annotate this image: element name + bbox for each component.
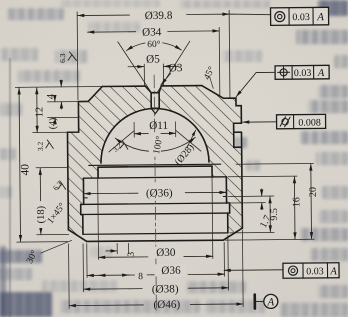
svg-text:A: A: [317, 68, 325, 79]
dim Ø36 bottom: [87, 274, 224, 275]
svg-text:3.2: 3.2: [36, 141, 45, 151]
100 degree text: [149, 133, 166, 155]
outline bottom right bevel: [223, 228, 242, 240]
svg-text:Ø5: Ø5: [146, 53, 160, 65]
dim Ø3 leader: [161, 73, 171, 84]
outline top face: [102, 85, 201, 88]
100 degree arc: [115, 137, 195, 152]
svg-text:6.3: 6.3: [51, 179, 64, 192]
internal bottom edge line: [83, 233, 228, 234]
outline bottom face: [87, 240, 223, 241]
svg-text:Ø3: Ø3: [169, 62, 183, 74]
svg-text:12: 12: [34, 107, 45, 118]
svg-text:60°: 60°: [147, 39, 161, 50]
svg-text:6.3: 6.3: [58, 53, 67, 63]
svg-text:16: 16: [291, 197, 302, 207]
60 degree arc with arrows: [126, 42, 181, 51]
60 degree text: [145, 38, 162, 50]
svg-text:8: 8: [138, 272, 143, 282]
dim 40: [19, 88, 20, 242]
svg-text:0.03: 0.03: [294, 68, 312, 79]
dim 9.5: [269, 196, 271, 232]
svg-text:(4): (4): [48, 118, 59, 130]
dim (SØ28) label on dome: [187, 130, 196, 148]
ghost bleed-through text rows (page verso show-through): [0, 0, 348, 1]
svg-text:A: A: [266, 296, 274, 308]
svg-text:(Ø36): (Ø36): [146, 187, 173, 199]
datum A symbol: [255, 294, 278, 308]
outline right side with groove pocket: [223, 98, 242, 228]
dim (4): [48, 116, 79, 118]
right side extension lines: [224, 163, 314, 240]
svg-text:30°: 30°: [24, 248, 40, 265]
page gutter line: [9, 58, 11, 317]
45 degree leader: [210, 77, 214, 89]
dim (18): [39, 168, 42, 234]
svg-text:20: 20: [308, 187, 319, 197]
svg-text:45°: 45°: [201, 65, 217, 82]
FCF1 concentricity 0.03 A (top right): [270, 7, 328, 25]
dome base edge: [98, 166, 212, 167]
dim Ø34 extension line right: [218, 27, 221, 96]
dim Ø30: [98, 256, 212, 257]
roughness 6.3 top left: [58, 52, 77, 63]
dim 20: [310, 164, 313, 239]
outline bottom left bevel 30: [68, 230, 86, 242]
outline left chamfer 45: [88, 87, 102, 102]
roughness 6.3 lower left: [51, 179, 66, 192]
svg-text:Ø34: Ø34: [142, 26, 162, 38]
dim Ø39.8 line: [78, 14, 271, 17]
svg-text:(Ø38): (Ø38): [152, 283, 179, 295]
outline left shoulder: [67, 101, 89, 229]
FCF2 position 0.03 A (right, with leader): [236, 65, 329, 96]
svg-text:(Ø46): (Ø46): [153, 299, 180, 311]
dim Ø34 line: [88, 31, 220, 32]
dim Ø39.8 extension lines: [77, 10, 230, 99]
dim (Ø36) internal mid: [84, 192, 226, 193]
internal step row 2: [83, 177, 226, 178]
FCF3 cylindricity 0.008 (right, with leader): [243, 114, 326, 129]
svg-text:A: A: [329, 266, 337, 277]
dim 1.7: [261, 189, 263, 196]
svg-text:1×45°: 1×45°: [45, 201, 68, 226]
svg-text:3: 3: [127, 252, 137, 257]
svg-text:0.03: 0.03: [292, 12, 310, 23]
svg-text:0.03: 0.03: [306, 266, 324, 277]
internal step row 1: [89, 164, 221, 165]
dim (Ø46): [69, 304, 243, 306]
dim 16: [293, 177, 296, 239]
dome cavity void (spherical chamber): [80, 108, 230, 242]
internal bore right wall steps: [212, 166, 230, 233]
part centerline: [154, 75, 156, 310]
svg-text:Ø36: Ø36: [161, 265, 181, 277]
FCF4 concentricity 0.03 A (bottom right, leader to axis): [224, 263, 339, 279]
section hatching of part body: [67, 85, 242, 241]
dim (Ø38): [83, 288, 228, 289]
drill point cone at hole bottom: [151, 108, 159, 113]
dim 12: [36, 88, 38, 133]
svg-text:A: A: [316, 11, 324, 23]
svg-text:Ø30: Ø30: [156, 247, 176, 259]
dim 4 (vertical, left): [47, 87, 102, 102]
internal bore left wall steps: [80, 167, 98, 234]
outline right chamfer 45: [202, 85, 224, 98]
100 degree cone lines: [109, 130, 201, 152]
dim Ø5 extension and arrow lines: [144, 64, 163, 85]
internal step row 3: [81, 203, 230, 204]
svg-text:Ø39.8: Ø39.8: [145, 10, 173, 22]
dim 3 bottom: [106, 250, 117, 252]
internal step row 4: [81, 213, 230, 214]
60 degree cone extension lines: [118, 41, 190, 92]
svg-text:0.008: 0.008: [298, 117, 321, 128]
bottom extension lines: [68, 167, 243, 309]
30 degree leader: [41, 240, 72, 253]
funnel countersink and small hole: [145, 86, 161, 108]
internal step row 1.7 relief: [84, 197, 227, 198]
svg-text:40: 40: [19, 164, 31, 176]
spherical chamber dome SR28: [100, 108, 209, 163]
svg-text:Ø11: Ø11: [149, 120, 168, 132]
roughness 3.2 on dome: [111, 141, 128, 154]
roughness 3.2 left: [36, 140, 54, 151]
